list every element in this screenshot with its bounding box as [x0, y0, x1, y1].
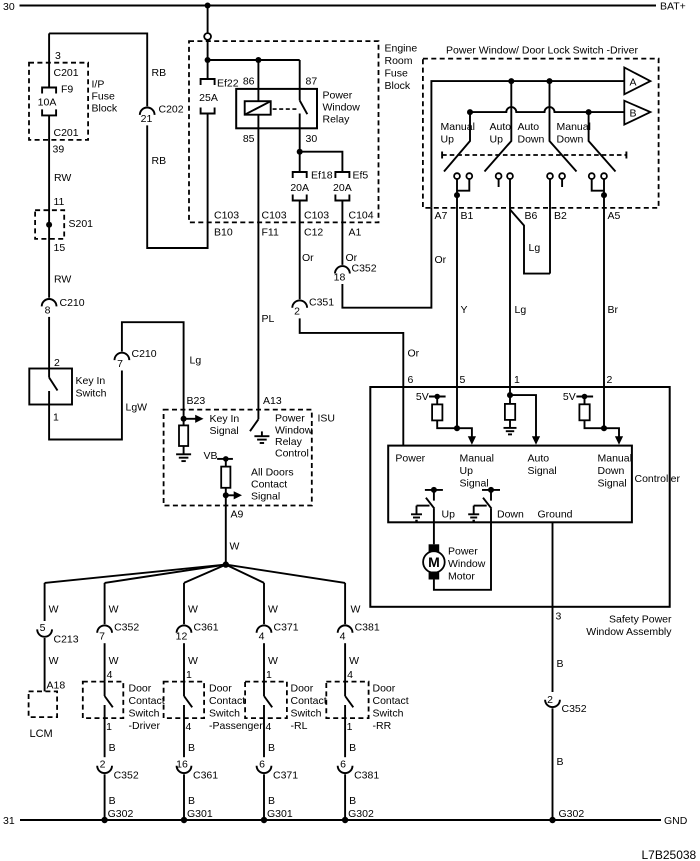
junction G301: [181, 817, 187, 823]
svg-text:B: B: [268, 742, 275, 754]
output triangle B: [624, 101, 650, 125]
pair2 stub: [498, 179, 500, 187]
wire power pin6 to controller: [402, 387, 404, 446]
svg-text:VB: VB: [204, 450, 218, 462]
svg-text:G301: G301: [267, 808, 293, 820]
door contact switch RR contact: [344, 682, 346, 696]
resistor R2: [509, 395, 511, 404]
svg-text:A18: A18: [47, 680, 66, 692]
key in switch box: [29, 369, 72, 405]
svg-text:Down: Down: [557, 134, 584, 146]
svg-text:Switch: Switch: [373, 708, 404, 720]
svg-text:C352: C352: [352, 263, 377, 275]
svg-text:3: 3: [55, 50, 61, 62]
fan wires: [45, 565, 226, 583]
svg-text:Ground: Ground: [538, 509, 573, 521]
wire pin 86: [257, 60, 259, 101]
svg-text:Manual: Manual: [441, 121, 475, 133]
svg-text:Signal: Signal: [210, 425, 239, 437]
svg-text:Y: Y: [461, 304, 468, 316]
connector C210 pin7: [115, 353, 130, 360]
svg-text:W: W: [268, 655, 278, 667]
arrow auto signal: [510, 395, 536, 437]
svg-text:1: 1: [53, 412, 59, 424]
svg-text:L7B25038: L7B25038: [642, 848, 697, 861]
driver switch box: [423, 59, 659, 208]
pair4 contact wires: [592, 179, 604, 191]
svg-text:A7: A7: [435, 210, 448, 222]
svg-text:W: W: [188, 655, 198, 667]
wire A5 Br to safety pin2: [603, 195, 605, 428]
wire A feed: [431, 81, 624, 208]
wire W: [263, 643, 265, 681]
svg-text:6: 6: [259, 759, 265, 771]
svg-text:W: W: [49, 655, 59, 667]
svg-text:C381: C381: [354, 770, 379, 782]
svg-text:Signal: Signal: [251, 491, 280, 503]
key in switch contact: [48, 369, 50, 378]
svg-text:Auto: Auto: [490, 121, 512, 133]
svg-text:Signal: Signal: [598, 478, 627, 490]
wire B6 Lg to safety pin1: [509, 179, 511, 395]
svg-text:GND: GND: [664, 815, 688, 827]
svg-text:C210: C210: [132, 348, 157, 360]
svg-text:Power: Power: [395, 453, 425, 465]
svg-text:Or: Or: [408, 348, 420, 360]
wire B to ground: [263, 774, 265, 820]
connector C381 pin4: [338, 625, 353, 632]
junction manual up: [467, 109, 473, 115]
svg-text:G301: G301: [187, 808, 213, 820]
connector C210 pin8: [42, 299, 57, 306]
connector C351 pin2: [292, 300, 307, 307]
junction pin86 feed: [255, 57, 261, 63]
ground: [504, 427, 517, 429]
contact circles pair2: [496, 173, 502, 179]
relay coil: [245, 101, 271, 115]
svg-text:B10: B10: [214, 227, 233, 239]
svg-text:5: 5: [460, 374, 466, 386]
svg-text:Signal: Signal: [528, 465, 557, 477]
svg-text:Down: Down: [518, 134, 545, 146]
wire B to ground: [104, 774, 106, 820]
wire to Ef5: [300, 152, 343, 172]
resistor VB: [225, 459, 227, 467]
svg-text:Up: Up: [441, 134, 455, 146]
svg-text:Contact: Contact: [291, 695, 327, 707]
svg-text:Ef18: Ef18: [311, 170, 333, 182]
svg-text:2: 2: [607, 374, 613, 386]
svg-text:C12: C12: [304, 227, 323, 239]
svg-text:1: 1: [106, 721, 112, 733]
svg-text:1: 1: [266, 669, 272, 681]
svg-text:Door: Door: [373, 683, 396, 695]
svg-text:Contact: Contact: [209, 695, 245, 707]
auto up switch arm: [485, 81, 512, 171]
door contact switch RL box: [245, 682, 287, 719]
svg-text:RB: RB: [152, 67, 167, 79]
svg-text:A: A: [630, 77, 637, 89]
svg-text:5V: 5V: [416, 391, 429, 403]
wire B with hops: [470, 107, 624, 112]
branch Driver wire W: [104, 583, 106, 624]
wire LgW: [49, 371, 122, 440]
svg-text:B: B: [630, 108, 637, 120]
svg-text:A13: A13: [263, 395, 282, 407]
svg-text:-RR: -RR: [373, 720, 392, 732]
svg-text:2: 2: [100, 759, 106, 771]
wire motor to down switch: [434, 509, 491, 590]
svg-text:2: 2: [294, 306, 300, 318]
svg-text:C371: C371: [273, 770, 298, 782]
svg-text:RB: RB: [152, 155, 167, 167]
wire pin 30: [299, 114, 301, 173]
svg-text:Power: Power: [323, 90, 353, 102]
junction on bus: [205, 3, 211, 9]
wire Or to A7: [342, 208, 431, 308]
bus 30 BAT+: [20, 5, 657, 7]
svg-text:C361: C361: [193, 770, 218, 782]
wire branch left to I/P block: [49, 33, 147, 106]
connector C361 pin12: [177, 625, 192, 632]
svg-text:15: 15: [54, 242, 66, 254]
svg-text:86: 86: [243, 76, 255, 88]
svg-text:W: W: [109, 604, 119, 616]
svg-text:C201: C201: [54, 127, 79, 139]
splice S201: [35, 210, 64, 239]
svg-text:ISU: ISU: [318, 413, 336, 425]
ground: [416, 506, 418, 515]
junction auto down: [547, 78, 553, 84]
svg-text:F9: F9: [61, 84, 73, 96]
svg-text:C351: C351: [309, 297, 334, 309]
svg-text:Ef5: Ef5: [353, 170, 369, 182]
svg-text:31: 31: [3, 815, 15, 827]
pair1 contact wires: [456, 179, 458, 195]
svg-text:W: W: [109, 655, 119, 667]
wire to Ef22: [207, 40, 209, 79]
svg-text:Manual: Manual: [598, 453, 632, 465]
svg-text:RW: RW: [54, 172, 71, 184]
svg-text:All Doors: All Doors: [251, 467, 294, 479]
mechanical link dashed: [442, 154, 626, 156]
wire to B1 net: [437, 420, 457, 428]
fuse Ef5 20A: [335, 172, 349, 178]
contact circles pair3: [547, 173, 553, 179]
relay U1 box: [236, 89, 317, 128]
svg-text:B: B: [188, 795, 195, 807]
svg-text:B1: B1: [461, 210, 474, 222]
svg-text:5: 5: [40, 622, 46, 634]
arrow manual down signal: [604, 428, 619, 437]
svg-text:G302: G302: [348, 808, 374, 820]
contact circles pair1: [454, 173, 460, 179]
engine room fuse block box: [189, 41, 379, 222]
wire Lg to ISU: [122, 322, 184, 419]
junction G302: [549, 817, 555, 823]
svg-text:Up: Up: [442, 509, 456, 521]
svg-text:4: 4: [107, 669, 113, 681]
svg-text:W: W: [49, 604, 59, 616]
manual up switch arm: [444, 112, 470, 171]
svg-text:W: W: [349, 655, 359, 667]
junction manual down signal: [601, 425, 607, 431]
svg-text:B: B: [268, 795, 275, 807]
junction auto signal: [507, 392, 513, 398]
svg-text:RW: RW: [54, 274, 71, 286]
svg-text:30: 30: [3, 1, 15, 13]
LCM box: [29, 691, 57, 717]
svg-text:4: 4: [266, 721, 272, 733]
relay control switch A13: [250, 419, 258, 431]
svg-text:12: 12: [176, 631, 188, 643]
controller box: [388, 446, 632, 523]
svg-text:BAT+: BAT+: [660, 1, 686, 13]
I/P fuse block box: [29, 63, 88, 140]
svg-text:B: B: [109, 742, 116, 754]
svg-text:Contact: Contact: [251, 479, 287, 491]
svg-text:LCM: LCM: [30, 728, 53, 740]
connector C371 pin4: [257, 625, 272, 632]
junction pin30 split: [297, 149, 303, 155]
ground: [183, 446, 185, 454]
svg-text:Motor: Motor: [448, 571, 475, 583]
svg-text:B2: B2: [554, 210, 567, 222]
svg-text:Relay: Relay: [275, 436, 303, 448]
svg-text:2: 2: [54, 357, 60, 369]
junction manual up signal: [454, 425, 460, 431]
svg-text:4: 4: [186, 721, 192, 733]
svg-text:A1: A1: [349, 227, 362, 239]
svg-text:Down: Down: [598, 465, 625, 477]
svg-text:11: 11: [54, 196, 65, 208]
svg-text:7: 7: [99, 631, 105, 643]
svg-text:Or: Or: [435, 254, 447, 266]
wire B1 Y to safety pin5: [456, 195, 458, 428]
wire W: [104, 643, 106, 681]
svg-text:4: 4: [340, 631, 346, 643]
svg-text:C381: C381: [355, 622, 380, 634]
svg-text:C213: C213: [54, 634, 79, 646]
junction key in signal: [181, 416, 187, 422]
svg-text:B: B: [349, 795, 356, 807]
svg-text:C352: C352: [562, 703, 587, 715]
svg-text:W: W: [188, 604, 198, 616]
svg-text:Power Window/ Door Lock Switch: Power Window/ Door Lock Switch -Driver: [446, 45, 638, 57]
svg-text:-Driver: -Driver: [129, 720, 161, 732]
svg-text:Key In: Key In: [76, 375, 106, 387]
bus 31 GND: [20, 819, 661, 821]
svg-text:C104: C104: [349, 210, 374, 222]
svg-text:M: M: [428, 554, 440, 570]
contact circles pair4: [589, 173, 595, 179]
svg-text:Manual: Manual: [460, 453, 494, 465]
svg-text:W: W: [230, 541, 240, 553]
svg-text:Or: Or: [302, 252, 314, 264]
svg-text:Switch: Switch: [291, 708, 322, 720]
svg-text:Window Assembly: Window Assembly: [586, 626, 672, 638]
svg-text:Block: Block: [92, 103, 118, 115]
svg-text:G302: G302: [559, 808, 585, 820]
wire B to ground: [183, 774, 185, 820]
connector C352 pin18: [335, 266, 350, 273]
svg-text:Switch: Switch: [76, 388, 107, 400]
resistor R3: [584, 397, 586, 405]
junction G302: [101, 817, 107, 823]
auto down switch arm: [550, 81, 577, 171]
branch LCM wire W: [44, 583, 46, 621]
wire W: [183, 643, 185, 681]
fuse F9 10A: [42, 88, 56, 94]
svg-text:Power: Power: [448, 546, 478, 558]
wire W: [344, 643, 346, 681]
svg-text:Door: Door: [129, 683, 152, 695]
svg-text:Door: Door: [291, 683, 314, 695]
svg-text:C201: C201: [54, 67, 79, 79]
svg-text:Up: Up: [460, 465, 474, 477]
svg-text:Manual: Manual: [557, 121, 591, 133]
connector C202 pin21: [140, 108, 155, 115]
branch RL wire W: [263, 583, 265, 624]
svg-text:Signal: Signal: [460, 478, 489, 490]
wire RB lower: [147, 114, 207, 249]
svg-text:S201: S201: [69, 218, 94, 230]
svg-text:25A: 25A: [199, 92, 218, 104]
branch RR wire W: [344, 583, 346, 624]
svg-text:39: 39: [53, 144, 65, 156]
svg-text:Window: Window: [323, 102, 361, 114]
svg-text:F11: F11: [262, 227, 279, 239]
svg-text:C371: C371: [274, 622, 299, 634]
junction node: [205, 57, 211, 63]
svg-text:20A: 20A: [290, 182, 309, 194]
svg-text:C361: C361: [194, 622, 219, 634]
svg-text:Door: Door: [209, 683, 232, 695]
svg-text:A9: A9: [231, 509, 244, 521]
pair3 stub: [561, 179, 563, 187]
wire up switch to motor: [433, 509, 435, 545]
svg-text:1: 1: [514, 374, 520, 386]
svg-text:B: B: [109, 795, 116, 807]
svg-text:10A: 10A: [38, 97, 57, 109]
svg-text:Lg: Lg: [515, 304, 527, 316]
svg-text:Br: Br: [608, 304, 619, 316]
svg-text:20A: 20A: [333, 182, 352, 194]
junction G301: [261, 817, 267, 823]
svg-text:C103: C103: [262, 210, 287, 222]
wire Or to safety pin6: [300, 318, 404, 387]
wire B: [552, 607, 554, 692]
arrow key in signal: [184, 418, 196, 420]
svg-text:Lg: Lg: [529, 242, 541, 254]
door contact switch Passenger box: [164, 682, 205, 719]
svg-text:B: B: [557, 658, 564, 670]
svg-text:2: 2: [547, 694, 553, 706]
connector C352 pin7: [97, 625, 112, 632]
relay switch arm pin 87: [299, 60, 301, 100]
fuse Ef18 20A: [293, 172, 307, 178]
svg-text:Switch: Switch: [129, 708, 160, 720]
wire B2: [549, 179, 551, 274]
wire to key switch: [48, 317, 50, 369]
svg-text:6: 6: [340, 759, 346, 771]
svg-text:PL: PL: [262, 313, 275, 325]
ISU box: [164, 410, 312, 506]
svg-text:C103: C103: [214, 210, 239, 222]
svg-text:B: B: [188, 742, 195, 754]
door contact switch RR box: [326, 682, 368, 719]
svg-text:C202: C202: [159, 104, 184, 116]
wire Ef18 out: [299, 201, 301, 300]
wire to A5 net: [585, 420, 605, 428]
door contact switch RL contact: [263, 682, 265, 696]
svg-text:Up: Up: [490, 134, 504, 146]
svg-text:W: W: [351, 604, 361, 616]
svg-text:1: 1: [186, 669, 192, 681]
svg-text:Room: Room: [385, 55, 413, 67]
wire ground pin3: [552, 522, 554, 607]
wire RW: [48, 115, 50, 297]
junction all doors contact: [223, 492, 229, 498]
svg-text:Contact: Contact: [129, 695, 165, 707]
svg-text:5V: 5V: [563, 391, 576, 403]
svg-text:4: 4: [347, 669, 353, 681]
arrow manual up signal: [457, 428, 472, 437]
svg-text:C352: C352: [114, 622, 139, 634]
svg-text:7: 7: [117, 358, 123, 370]
svg-text:-Passenger: -Passenger: [209, 720, 263, 732]
wire A9 W: [225, 495, 227, 564]
relay link dashed: [273, 108, 299, 110]
svg-text:Lg: Lg: [190, 355, 202, 367]
branch Passenger wire W: [183, 583, 185, 624]
down switch: [488, 487, 494, 493]
svg-text:B6: B6: [525, 210, 538, 222]
door contact switch Driver contact: [104, 682, 106, 696]
svg-text:85: 85: [243, 133, 255, 145]
wire PL pin85 down to ISU A13: [257, 115, 259, 420]
svg-text:21: 21: [141, 113, 153, 125]
svg-text:LgW: LgW: [126, 402, 148, 414]
wire Ef5 out: [341, 201, 343, 265]
fanout node: [223, 561, 229, 567]
fuse Ef22 25A: [201, 79, 215, 85]
resistor key in: [183, 419, 185, 426]
manual down switch arm: [589, 112, 616, 171]
wire feed to relay: [208, 59, 300, 61]
svg-text:6: 6: [408, 374, 414, 386]
resistor R1: [436, 397, 438, 405]
svg-text:A5: A5: [608, 210, 621, 222]
svg-text:18: 18: [334, 272, 346, 284]
wire into I/P fuse block: [48, 33, 50, 87]
svg-text:C103: C103: [304, 210, 329, 222]
svg-text:Key In: Key In: [210, 413, 240, 425]
svg-text:C210: C210: [60, 297, 85, 309]
svg-text:Window: Window: [275, 425, 313, 437]
svg-text:Controller: Controller: [635, 473, 681, 485]
door contact switch Driver box: [83, 682, 124, 719]
wire W to LCM: [44, 638, 46, 691]
svg-text:Window: Window: [448, 558, 486, 570]
up switch: [431, 487, 437, 493]
svg-text:3: 3: [556, 611, 562, 623]
connector circle: [204, 33, 211, 40]
svg-text:W: W: [268, 604, 278, 616]
ground: [473, 506, 475, 515]
branch B6 to B2: [510, 210, 550, 274]
svg-text:Engine: Engine: [385, 43, 418, 55]
